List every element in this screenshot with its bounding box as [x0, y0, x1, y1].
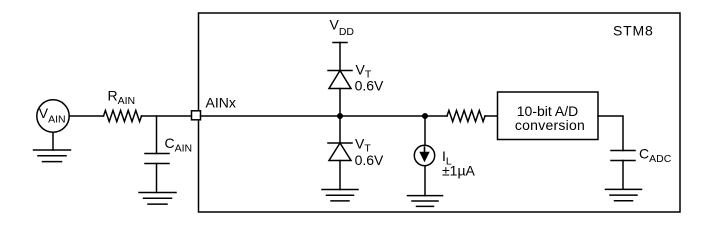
capacitor C_ADC [611, 151, 635, 161]
svg-text:0.6V: 0.6V [355, 152, 384, 168]
wire V_AIN to R_AIN [69, 115, 103, 117]
ground GND5 [606, 189, 642, 200]
capacitor C_AIN [145, 154, 169, 164]
ground GND3 [322, 190, 358, 201]
wire R_AIN to pin [142, 115, 192, 117]
svg-text:AINx: AINx [206, 95, 236, 111]
diode D1 cathode bar [328, 70, 352, 72]
ground GND1 [34, 150, 71, 162]
wire D2 to ground [339, 161, 341, 190]
current source arrow [419, 146, 429, 162]
wire A/D box to C_ADC [598, 116, 623, 151]
wire node B to current source I_L [424, 116, 426, 145]
ground GND2 [139, 193, 176, 205]
wire I_L to ground [424, 166, 426, 196]
svg-text:conversion: conversion [515, 117, 585, 133]
STM8 box [199, 13, 681, 212]
wire node A to diode D2 [339, 116, 341, 143]
wire R2 to A/D box [485, 115, 498, 117]
current source I_L [414, 145, 434, 165]
voltage source V_AIN [37, 100, 69, 132]
junction node B dot [422, 113, 428, 119]
ground GND4 [408, 196, 443, 207]
A/D converter block U1 [498, 92, 599, 140]
wire C_ADC to ground [622, 161, 624, 190]
wire node to C_AIN [156, 116, 158, 154]
svg-text:0.6V: 0.6V [355, 78, 384, 94]
pin AINx [192, 111, 201, 120]
wire V_AIN to ground [52, 132, 54, 150]
diode D2 cathode bar [328, 142, 352, 144]
power tick V_DD [333, 42, 347, 44]
wire V_DD to diode D1 [339, 43, 341, 71]
wire node B to resistor R2 [425, 115, 447, 117]
wire C_AIN to ground [156, 164, 158, 193]
diode D1 [329, 71, 351, 89]
svg-text:±1µA: ±1µA [442, 163, 476, 179]
junction node A dot [337, 113, 343, 119]
wire pin to node A [201, 115, 341, 117]
resistor R2 [447, 110, 485, 121]
wire D1 to node A [339, 89, 341, 117]
wire node A to node B [340, 115, 425, 117]
resistor R_AIN [104, 110, 142, 121]
diode D2 [329, 143, 351, 161]
svg-text:STM8: STM8 [613, 23, 654, 39]
